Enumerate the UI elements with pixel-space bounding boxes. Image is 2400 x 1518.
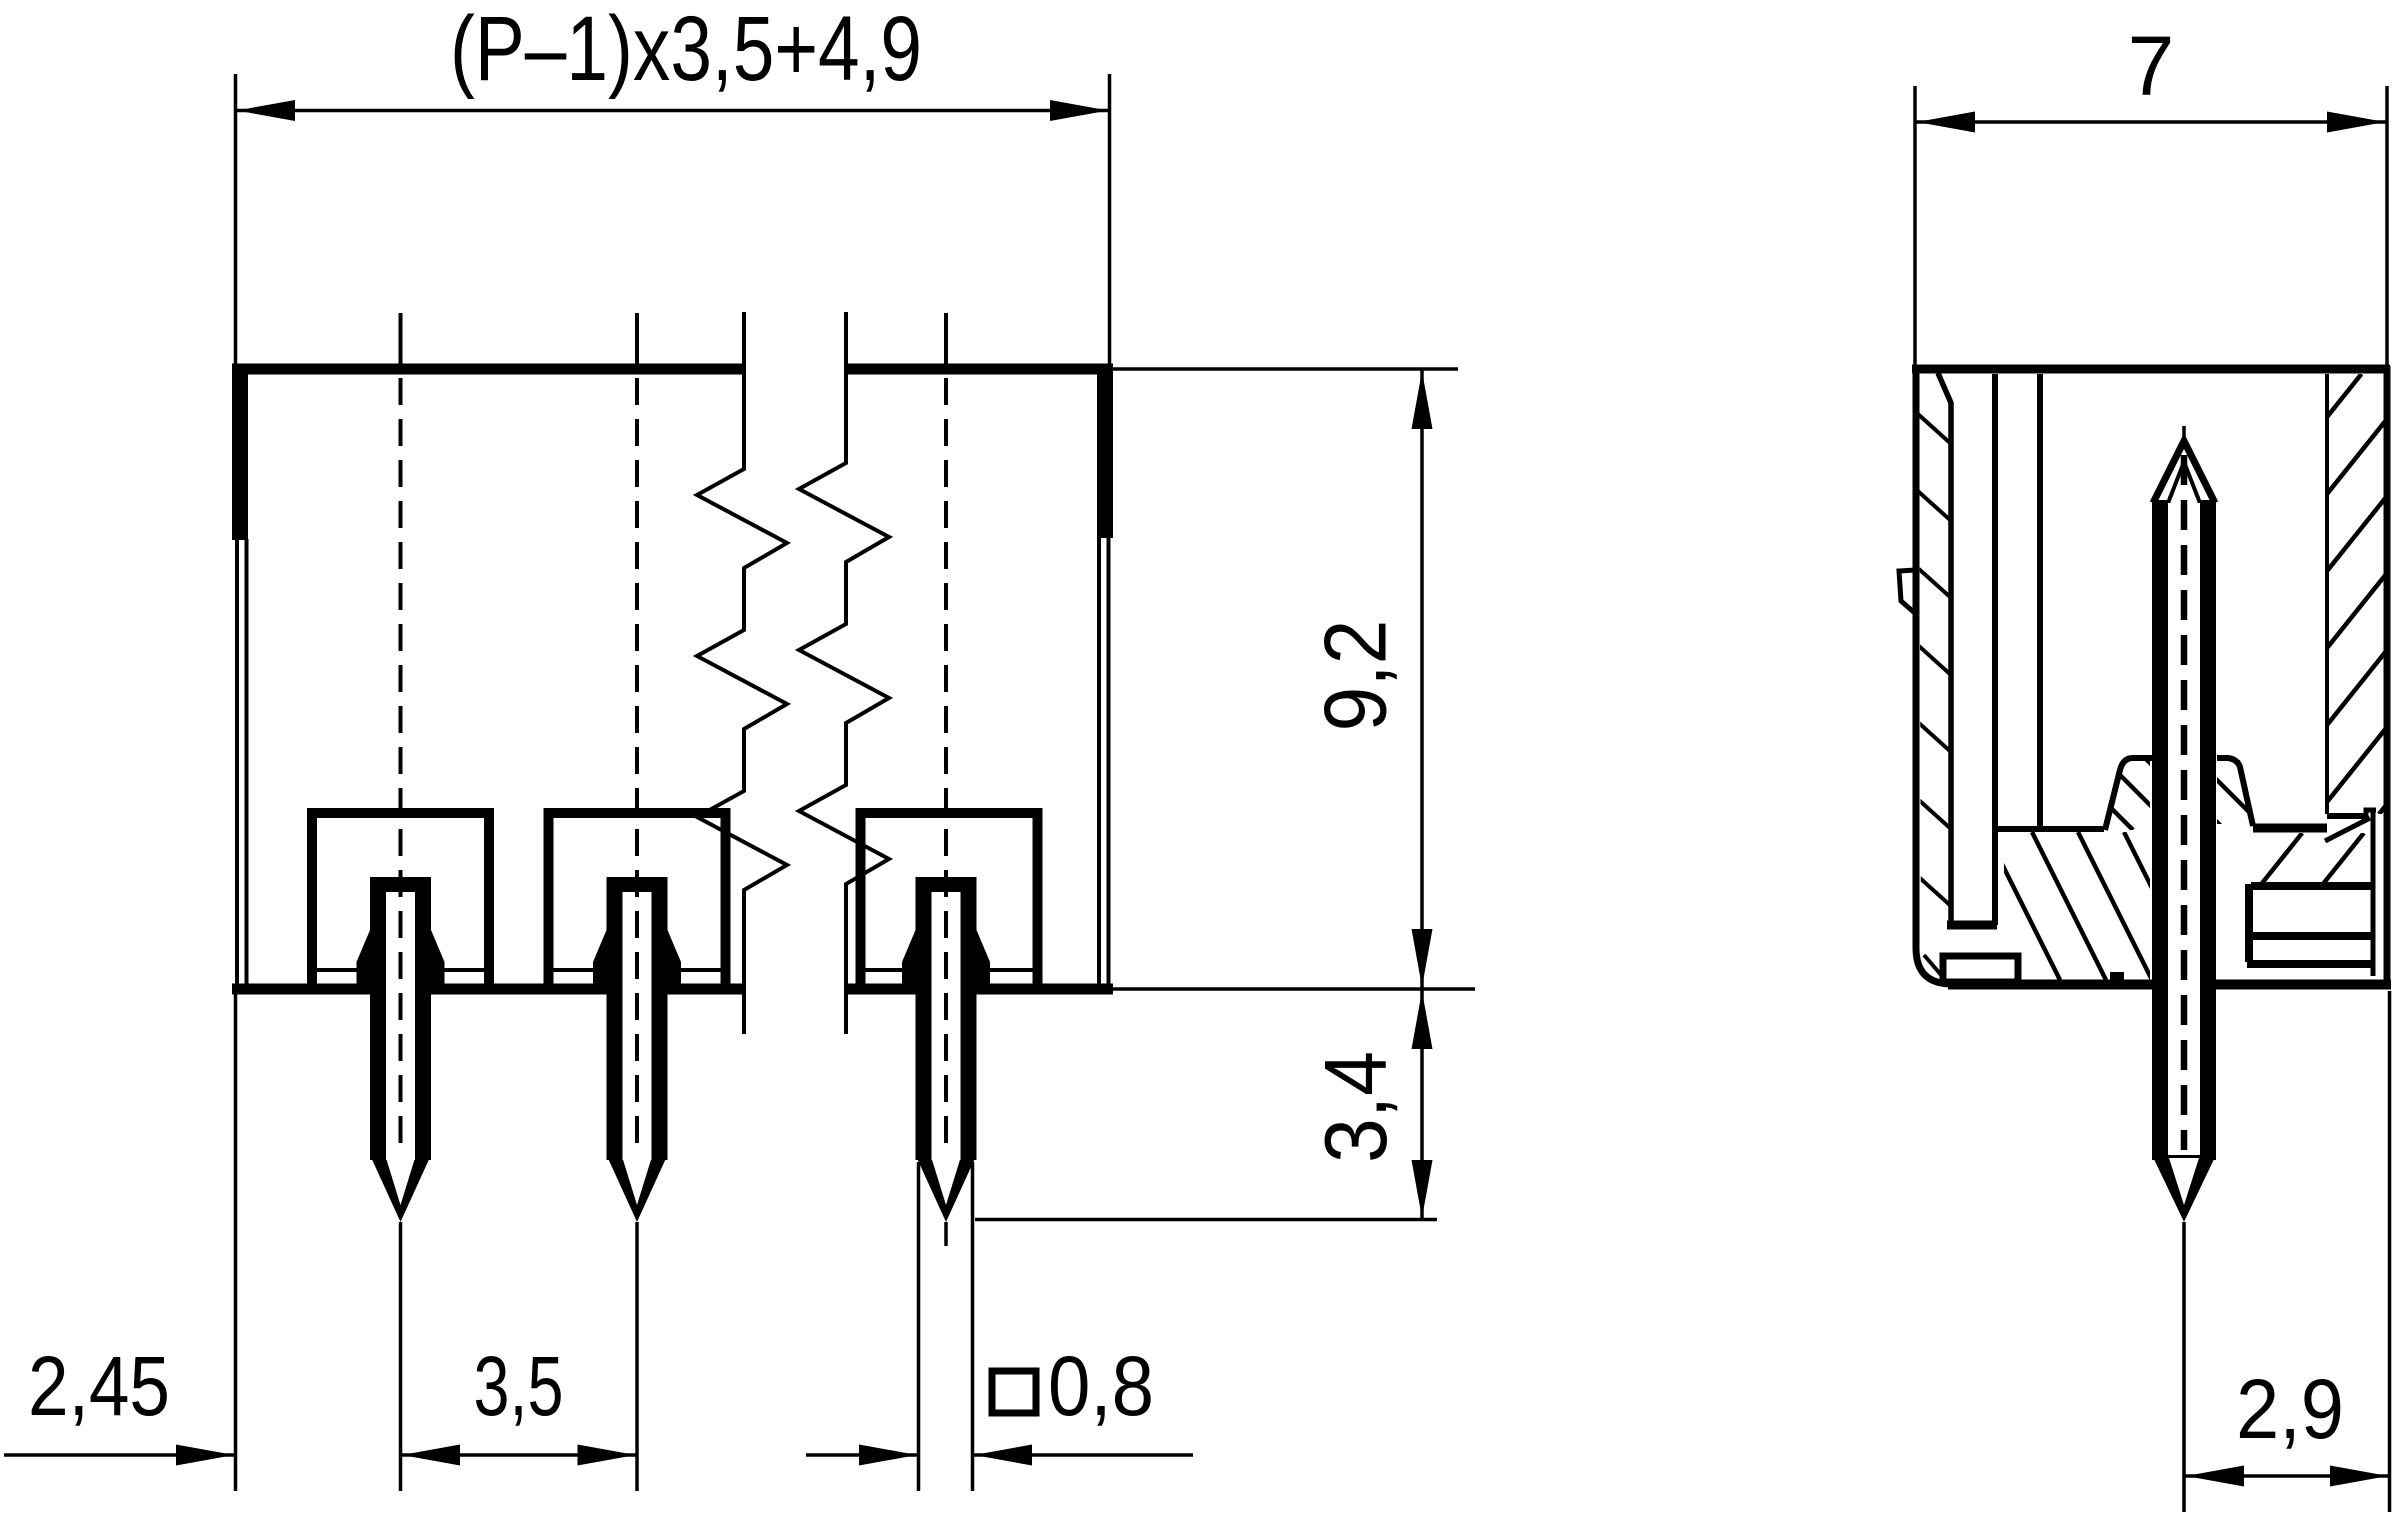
left wall hatching <box>1192 377 2400 955</box>
pin 1 top cap <box>370 877 431 892</box>
pin side view right bar <box>2200 500 2216 1160</box>
contact cavity 2 top edge <box>544 808 731 818</box>
housing left outer edge <box>235 366 239 992</box>
side view right outer edge <box>2384 366 2391 981</box>
dimension label 7 <box>2128 19 2175 113</box>
pin side view center line extension below <box>2182 1222 2186 1512</box>
side view width extension line right <box>2385 86 2389 366</box>
pin 2 solder funnel <box>593 930 681 995</box>
contact hump right ledge <box>2217 758 2253 826</box>
svg-text:0,8: 0,8 <box>1048 1339 1154 1433</box>
small rib below hump <box>2110 972 2124 986</box>
dimension label 3,4 <box>1306 1051 1405 1163</box>
dimension line 2,45 <box>4 1445 234 1466</box>
pin 2 inner channel <box>623 892 652 1205</box>
dimension line 2,9 <box>2185 1466 2389 1487</box>
side view bottom right extension line <box>2388 991 2392 1512</box>
pin side view left bar <box>2152 500 2168 1160</box>
pin 2 center line above housing <box>635 313 639 366</box>
bar right of hump <box>2253 824 2327 833</box>
side view bottom edge <box>1948 980 2391 990</box>
pin 3 center line above housing <box>944 313 948 366</box>
corner chamfer line <box>1924 955 1942 976</box>
pin 3 top cap <box>916 877 977 892</box>
svg-text:9,2: 9,2 <box>1306 620 1405 732</box>
pin 3 right edge extension line <box>971 1162 975 1491</box>
slot wall line <box>2037 374 2043 826</box>
inner column bottom bar <box>1947 921 1997 930</box>
extension line pin tip level <box>975 1218 1437 1222</box>
contact cavity 3 left wall <box>856 813 866 986</box>
right wall block bottom edge <box>2327 813 2368 819</box>
svg-text:3,5: 3,5 <box>474 1339 564 1433</box>
svg-text:3,4: 3,4 <box>1306 1051 1405 1163</box>
housing bottom edge left segment <box>232 984 743 995</box>
housing left inner edge thick upper part <box>232 364 248 540</box>
housing right inner edge thick upper part <box>1097 364 1113 538</box>
side view latch notch on left edge <box>1899 570 1916 614</box>
pin 1 center line above housing <box>399 313 403 366</box>
hump ledge hatching <box>2109 756 2347 826</box>
extension line housing top right <box>1113 367 1458 371</box>
pin 3 left edge extension line <box>917 1162 921 1491</box>
pin 3 right side bar <box>961 877 977 1160</box>
contact cavity 1 left wall <box>307 813 317 986</box>
pin side view tip cone <box>2153 441 2215 503</box>
left wall inner boundary line <box>1938 373 1951 922</box>
pin 1 left side bar <box>370 877 386 1160</box>
dimension extension line left lower part <box>234 992 238 1491</box>
contact cavity 1 top edge <box>307 808 494 818</box>
foot rib white rectangle <box>1943 956 2018 982</box>
square symbol for 0,8 <box>992 1371 1036 1413</box>
svg-text:7: 7 <box>2128 19 2175 113</box>
housing bottom edge right segment <box>848 984 1113 995</box>
dimension extension line left (body width) <box>234 74 238 366</box>
housing top edge right segment <box>845 364 1113 375</box>
dimension line 3,5 <box>401 1445 638 1466</box>
pin 1 center line dashed <box>399 378 403 1150</box>
pin 2 right side bar <box>652 877 668 1160</box>
pin 2 left side bar <box>607 877 623 1160</box>
pin 3 left side bar <box>916 877 932 1160</box>
contact cavity 2 right wall <box>721 813 731 986</box>
pin 3 inner channel <box>932 892 961 1205</box>
svg-text:(P–1)x3,5+4,9: (P–1)x3,5+4,9 <box>450 0 922 100</box>
right wall hatching <box>1948 374 2400 814</box>
pin 1 right side bar <box>415 877 431 1160</box>
dimension label (P-1)x3,5+4,9 <box>450 0 922 100</box>
dimension label 0,8 <box>1048 1339 1154 1433</box>
left hump hatching <box>2019 758 2259 830</box>
pin 2 top cap <box>607 877 668 892</box>
contact hump outline <box>2105 758 2152 830</box>
dimension line 3,4 <box>1412 990 1433 1219</box>
pin side view dashed center line <box>2181 455 2188 1150</box>
side view left outer edge with rounded bottom corner <box>1916 366 1952 984</box>
contact cavity 3 top edge <box>856 808 1043 818</box>
housing right outer edge <box>1107 366 1111 992</box>
right wall lower hatching <box>2198 833 2400 886</box>
dimension label 2,9 <box>2236 1362 2344 1456</box>
dimension label 2,45 <box>28 1339 170 1433</box>
svg-text:2,9: 2,9 <box>2236 1362 2344 1456</box>
side view width extension line left <box>1913 86 1917 366</box>
pin side view center line stub above tip <box>2182 426 2186 446</box>
dimension line 0,8 left part <box>806 1445 918 1466</box>
right wall step <box>2366 810 2376 816</box>
contact cavity 3 floor line <box>866 968 1033 972</box>
dimension extension line right (body width) <box>1108 74 1112 366</box>
pin side view inner channel <box>2168 503 2200 1158</box>
pin 3 center line stub below tip <box>944 1222 948 1246</box>
bottom area hatching <box>1894 832 2244 980</box>
inner column right line <box>1992 374 1998 925</box>
side view top edge <box>1912 365 2390 374</box>
svg-text:2,45: 2,45 <box>28 1339 170 1433</box>
contact cavity 3 right wall <box>1033 813 1043 986</box>
dimension line 9,2 <box>1412 370 1433 988</box>
dimension label 3,5 <box>474 1339 564 1433</box>
right wall inner boundary line <box>2325 374 2329 814</box>
pin 2 tip <box>607 1155 668 1222</box>
contact cavity 2 left wall <box>544 813 554 986</box>
housing right inner edge <box>1097 537 1101 989</box>
dimension line 7 <box>1916 112 2386 133</box>
cavity floor line <box>1998 826 2104 832</box>
right wall sloped boundary line <box>2325 818 2370 841</box>
break line left zigzag <box>697 312 787 1034</box>
pin 3 center line dashed <box>944 378 948 1150</box>
column right of pin <box>2245 884 2253 962</box>
pin side view bottom tip <box>2152 1155 2216 1222</box>
pin 1 center line extension to dimension <box>399 1222 403 1491</box>
pin 1 solder funnel <box>357 930 445 995</box>
break line right zigzag <box>799 312 889 1034</box>
pin 1 inner channel <box>386 892 415 1205</box>
dimension line 0,8 right part <box>973 1445 1193 1466</box>
right wall inner vertical line <box>2371 812 2376 976</box>
extension line housing bottom right <box>1113 987 1475 991</box>
contact cavity 1 floor line <box>317 968 484 972</box>
bar below notch <box>2247 960 2371 968</box>
contact cavity 1 right wall <box>484 813 494 986</box>
pin 2 center line extension to dimension <box>635 1222 639 1491</box>
pin 2 center line dashed <box>635 378 639 1150</box>
notch bottom edge <box>2251 932 2371 940</box>
dimension line (P-1)x3,5+4,9 <box>236 100 1109 121</box>
dimension label 9,2 <box>1306 620 1405 732</box>
pin 1 tip <box>370 1155 431 1222</box>
notch top edge <box>2251 882 2371 890</box>
pin 3 tip <box>916 1155 977 1222</box>
contact cavity 2 floor line <box>554 968 721 972</box>
housing top edge left segment <box>232 364 746 375</box>
pin 3 solder funnel <box>902 930 990 995</box>
housing left inner edge <box>245 539 249 989</box>
